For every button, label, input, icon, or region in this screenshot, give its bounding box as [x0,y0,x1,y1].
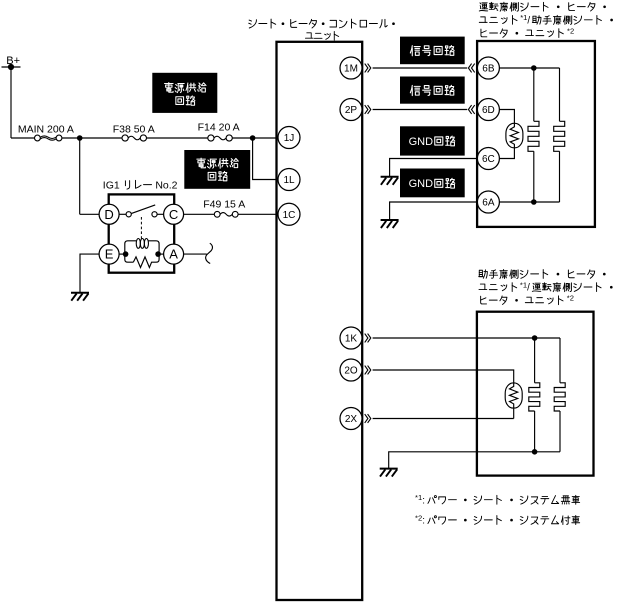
junction node 6A/element1 [531,199,537,205]
driver seat heater unit label [479,2,606,11]
wire thermistor lower to 2X [513,408,515,418]
wire relay C to fuse F49 to pin 1C [184,213,278,215]
wire thermistor to 6C [499,148,514,159]
relay coil inductor loops [136,239,140,249]
label box signal circuit 1 [400,37,465,65]
heater element 3 lower [529,383,540,411]
wire 2P to 6D [365,105,371,114]
junction node main/relay [77,135,83,141]
thermistor upper zigzag [510,123,518,148]
wire heater element 4 vertical [559,338,561,452]
wire heater element 1 vertical [533,68,535,202]
wire 6A bus [499,201,559,203]
svg-text:F49 15 A: F49 15 A [203,199,245,211]
junction node bottom/element3 [532,449,538,455]
svg-text:6A: 6A [482,198,495,209]
relay terminal A [164,244,184,264]
fuse F38 50 A [128,136,140,140]
relay actuation dashed link [140,217,142,240]
relay switch arm [132,205,156,214]
pin 2O [340,359,362,381]
svg-text:1K: 1K [345,334,358,345]
pin 1J [278,127,300,149]
svg-text:D: D [104,207,113,222]
svg-text:F14 20 A: F14 20 A [198,122,240,134]
fuse F14 20 A [214,136,226,140]
fuse F49 15 A [220,213,232,217]
wire E to coil [119,253,125,255]
svg-text:E: E [105,247,114,262]
wire 1K to heater elements [365,334,371,343]
junction node coil right [155,251,161,257]
svg-text:MAIN 200 A: MAIN 200 A [18,123,74,135]
ground 6A [381,219,399,221]
svg-text:1J: 1J [284,133,295,144]
thermistor upper body [506,123,523,148]
svg-text:1M: 1M [344,64,358,75]
svg-text:No.2: No.2 [155,179,177,191]
label box GND circuit 1 [400,126,465,155]
ground lower unit [380,468,398,470]
svg-text:GND: GND [409,136,434,148]
pin 2P [340,99,362,121]
pin 1M [340,57,362,79]
pin 6D [477,99,499,121]
passenger seat heater unit label [479,269,606,278]
heater element 1 upper [528,121,539,151]
thermistor lower body [505,383,522,408]
wire 1M to 6B [365,64,371,73]
svg-text:/: / [527,283,530,294]
seat heater control unit title [249,19,395,28]
svg-text:1L: 1L [283,175,295,186]
heater element 2 upper [554,121,565,151]
relay switch contact left [119,213,126,215]
svg-text:IG1: IG1 [103,179,120,191]
pin 1K [340,327,362,349]
relay coil body outline right [148,241,159,262]
wire break symbol [206,243,213,263]
svg-text:2X: 2X [345,414,358,425]
pin 1L [278,169,300,191]
svg-text:C: C [169,207,178,222]
svg-text:/: / [527,15,530,26]
wire coil to A [159,253,164,255]
svg-text:6D: 6D [482,105,495,116]
thermistor lower zigzag [510,383,518,408]
wire heater element 3 vertical [534,338,536,452]
svg-text:2O: 2O [344,366,358,377]
wire bottom bus to ground [389,452,560,469]
svg-text:6B: 6B [482,64,495,75]
svg-text::: : [422,495,425,506]
svg-text::: : [422,515,425,526]
svg-text:GND: GND [409,178,434,190]
pin 6A [477,191,499,213]
driver seat heater unit box [477,41,595,227]
svg-text:*1: *1 [520,13,527,22]
pin 2X [340,408,362,430]
svg-text:*2: *2 [567,26,574,35]
relay terminal E [99,244,119,264]
wire 6A to ground [390,202,478,220]
pin 6B [477,57,499,79]
battery terminal B+ [2,66,21,68]
junction node 1K/element3 [532,335,538,341]
junction node 6B/element1 [531,65,537,71]
label box power supply circuit 1 [152,73,217,113]
svg-text:F38 50 A: F38 50 A [113,123,155,135]
label box GND circuit 2 [400,169,465,198]
wire 2O to thermistor [365,366,371,375]
pin 6C [477,148,499,170]
ground relay [71,292,89,294]
wire junction to pin 1L [253,138,278,180]
wire E to ground [80,254,99,293]
svg-text:*1: *1 [520,280,527,289]
svg-text:*2: *2 [567,294,574,303]
junction node coil left [123,251,129,257]
wire 2X to thermistor [365,414,371,423]
svg-text:A: A [169,247,178,262]
heater element 4 lower [554,383,565,411]
wire main bus [11,137,278,139]
wire 6B to heater elements [499,67,559,69]
label box signal circuit 2 [400,77,465,104]
relay IG1 No.2 box [109,194,175,272]
passenger seat heater unit box [477,312,594,476]
wire 6D to thermistor [499,110,514,124]
note 1 power seat system without [415,493,580,506]
seat heater control unit box [277,42,363,600]
pin 1C [278,203,300,225]
svg-text:*1: *1 [415,493,422,502]
wire B+ down [10,67,12,138]
wire junction to relay D [80,138,99,214]
relay IG1 No.2 label [103,179,178,191]
svg-text:*2: *2 [415,513,422,522]
relay coil resistor zigzag [133,257,153,268]
wire heater element 2 vertical [559,68,561,202]
relay coil body outline left [125,241,137,262]
svg-text:1C: 1C [283,210,296,221]
ground 6C [381,176,399,178]
relay switch contact right [157,213,164,215]
relay terminal C [164,204,184,224]
note 2 power seat system with [415,513,580,526]
wire 6C to ground [390,159,478,177]
relay terminal D [99,204,119,224]
svg-text:6C: 6C [482,154,495,165]
svg-text:B+: B+ [6,55,20,67]
fuse MAIN 200 A [40,136,56,139]
junction node main/1L [250,135,256,141]
svg-text:2P: 2P [345,105,358,116]
wire A continuation [184,253,207,255]
label box power supply circuit 2 [184,150,250,189]
